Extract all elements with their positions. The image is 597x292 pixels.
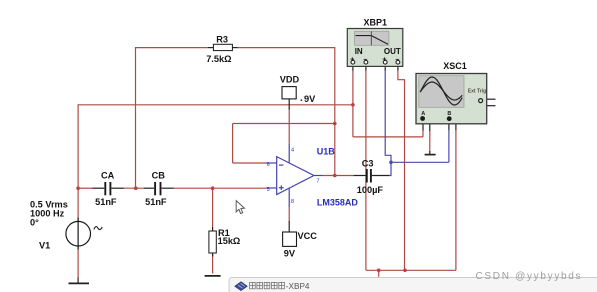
svg-text:15kΩ: 15kΩ (218, 236, 241, 246)
svg-text:CA: CA (101, 171, 115, 181)
svg-text:XSC1: XSC1 (443, 61, 467, 71)
svg-text:0°: 0° (30, 218, 39, 228)
svg-text:-XBP4: -XBP4 (286, 282, 310, 291)
svg-text:–: – (395, 56, 399, 63)
svg-text:4: 4 (291, 147, 294, 153)
svg-text:C3: C3 (362, 158, 374, 168)
svg-text:9V: 9V (304, 94, 316, 104)
svg-text:XBP1: XBP1 (364, 17, 388, 27)
svg-text:7.5kΩ: 7.5kΩ (206, 54, 231, 64)
svg-text:B: B (447, 111, 451, 117)
svg-text:8: 8 (291, 199, 294, 205)
svg-text:R3: R3 (216, 35, 228, 45)
svg-text:Ext Trig: Ext Trig (468, 89, 486, 95)
svg-text:VCC: VCC (298, 231, 318, 241)
svg-text:51nF: 51nF (95, 197, 117, 207)
svg-text:–: – (363, 56, 367, 63)
svg-text:6: 6 (267, 162, 270, 168)
svg-text:U1B: U1B (317, 146, 336, 156)
svg-text:IN: IN (355, 47, 363, 56)
svg-text:7: 7 (317, 178, 320, 184)
svg-text:100µF: 100µF (357, 185, 384, 195)
svg-text:LM358AD: LM358AD (317, 198, 359, 208)
svg-text:+: + (350, 56, 354, 63)
svg-text:OUT: OUT (384, 47, 401, 56)
svg-text:+: + (382, 56, 386, 63)
svg-text:A: A (421, 111, 425, 117)
svg-text:VDD: VDD (280, 74, 300, 84)
svg-text:5: 5 (267, 187, 270, 193)
svg-text:51nF: 51nF (145, 197, 167, 207)
svg-text:9V: 9V (284, 248, 296, 258)
svg-text:V1: V1 (39, 240, 50, 250)
svg-text:CSDN @yybyybds: CSDN @yybyybds (476, 271, 583, 282)
svg-text:CB: CB (152, 171, 166, 181)
